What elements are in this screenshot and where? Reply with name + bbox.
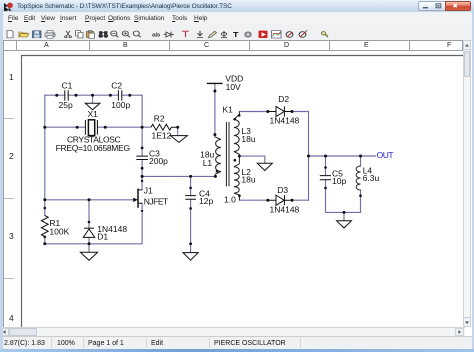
wire drain rail — [142, 175, 215, 177]
ground (D1) — [80, 245, 97, 260]
down arrow — [197, 31, 203, 38]
wire tank bottom — [326, 212, 361, 220]
svg-text:C2: C2 — [111, 81, 122, 91]
svg-text:T: T — [233, 31, 239, 39]
capacitor C2 — [111, 81, 130, 111]
title bar — [0, 0, 474, 12]
wire secondary bottom — [239, 199, 308, 201]
flag phi — [221, 32, 226, 35]
svg-text:OUT: OUT — [377, 150, 394, 160]
junctions drain rail / C4 — [189, 175, 217, 245]
vertical scrollbar — [463, 40, 471, 327]
svg-text:12p: 12p — [199, 196, 213, 206]
schematic SVG — [15, 51, 465, 327]
top ruler — [3, 40, 463, 51]
diode D2 — [268, 94, 300, 126]
wire crystal row — [45, 126, 150, 128]
svg-text:200p: 200p — [149, 156, 168, 166]
inductor L3 — [234, 112, 256, 164]
cut — [66, 31, 70, 36]
ground (tank) — [337, 221, 352, 228]
svg-text:1N4148: 1N4148 — [270, 205, 300, 215]
zoom sel — [133, 31, 139, 36]
svg-text:18u: 18u — [241, 134, 255, 144]
T red — [182, 31, 189, 37]
wire OUT rail — [309, 155, 376, 157]
transistor J1 NJFET — [133, 185, 168, 208]
power VDD — [207, 73, 243, 92]
wire top rail — [45, 94, 142, 96]
wire D1 branch — [88, 200, 90, 253]
wire C5 branch — [325, 156, 327, 212]
wire secondary top — [239, 112, 308, 201]
svg-text:1E12: 1E12 — [152, 131, 172, 141]
status bar — [0, 336, 474, 349]
horizontal scrollbar — [0, 327, 465, 336]
svg-text:C1: C1 — [62, 81, 73, 91]
toolbar — [0, 24, 474, 41]
junctions C3 bus / drain node — [141, 147, 144, 213]
capacitor C1 — [59, 81, 73, 111]
capacitor C3 — [136, 148, 168, 166]
svg-text:D3: D3 — [277, 185, 288, 195]
print — [45, 33, 55, 37]
svg-text:100K: 100K — [49, 227, 69, 237]
svg-text:100p: 100p — [111, 100, 130, 110]
svg-text:1.0: 1.0 — [224, 195, 236, 205]
gear — [245, 32, 251, 37]
svg-text:D2: D2 — [278, 94, 289, 104]
resistor R1 — [41, 216, 69, 237]
svg-text:1N4148: 1N4148 — [270, 116, 300, 126]
key — [322, 32, 326, 35]
junctions secondary windings / diodes — [238, 110, 294, 202]
wire bus C3/drain — [141, 95, 143, 190]
paste — [87, 31, 94, 38]
diode icon — [166, 32, 171, 37]
red play — [259, 31, 268, 38]
crystal X1 — [56, 109, 130, 153]
svg-text:6.3u: 6.3u — [363, 173, 380, 183]
svg-text:10p: 10p — [332, 176, 346, 186]
new — [7, 30, 13, 37]
wire gate row — [45, 199, 134, 201]
ground (R2) — [170, 127, 187, 142]
junctions gate row node — [43, 198, 90, 238]
inductor L2 — [234, 159, 256, 200]
diode D3 — [268, 185, 300, 215]
capacitor C4 — [185, 189, 213, 206]
svg-text:L1: L1 — [203, 158, 213, 168]
capacitor C5 — [320, 169, 347, 186]
probe2 — [299, 32, 306, 38]
find binoculars — [100, 32, 108, 34]
zoom out — [111, 31, 117, 36]
wire VDD stub — [214, 83, 217, 176]
junctions OUT node / tank — [307, 155, 362, 214]
left ruler — [3, 51, 16, 327]
ground (center tap) — [257, 163, 272, 170]
zoom in — [122, 31, 128, 36]
ground (C1/C2 node) — [85, 95, 100, 110]
probe1 — [286, 32, 293, 38]
wire C4 branch — [190, 176, 192, 252]
save — [33, 31, 42, 38]
svg-text:ab: ab — [152, 32, 160, 38]
svg-text:K1: K1 — [223, 104, 234, 114]
svg-text:R2: R2 — [154, 114, 165, 124]
sheet — [15, 51, 465, 327]
svg-text:D1: D1 — [97, 232, 108, 242]
transformer K1 core — [223, 104, 237, 204]
open — [19, 32, 29, 37]
chart — [272, 31, 282, 38]
wire L4 branch — [360, 156, 362, 212]
svg-text:NJFET: NJFET — [144, 196, 168, 206]
wire left rail — [44, 95, 46, 244]
wire bottom rail — [45, 203, 142, 244]
junctions top rail (C1/C2 node) — [55, 94, 131, 97]
svg-text:FREQ=10.0658MEG: FREQ=10.0658MEG — [56, 143, 130, 153]
wire center tap — [239, 156, 264, 163]
svg-text:X1: X1 — [88, 109, 99, 119]
svg-text:10V: 10V — [226, 82, 241, 92]
menu bar — [0, 12, 474, 24]
svg-text:18u: 18u — [241, 175, 255, 185]
svg-text:25p: 25p — [59, 100, 73, 110]
pencil — [209, 31, 217, 38]
junctions bottom rail (source node) — [43, 242, 90, 245]
junctions crystal row node — [43, 126, 179, 129]
junctions VDD node — [213, 90, 216, 137]
svg-text:J1: J1 — [144, 185, 153, 195]
ground (C4) — [183, 253, 198, 261]
inductor L1 — [200, 137, 221, 174]
resistor R2 — [151, 114, 178, 141]
diode D1 — [83, 224, 127, 242]
inductor L4 — [356, 166, 379, 190]
copy — [76, 31, 81, 36]
